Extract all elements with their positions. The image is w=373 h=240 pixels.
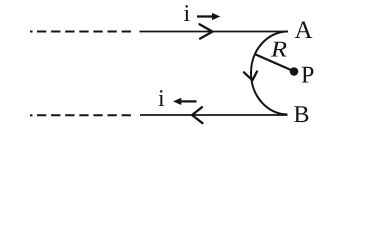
svg-text:B: B [294, 102, 310, 128]
svg-text:i: i [184, 1, 191, 27]
svg-text:A: A [295, 17, 313, 44]
svg-text:i: i [158, 86, 165, 112]
svg-text:P: P [301, 63, 314, 89]
svg-text:R: R [270, 37, 287, 62]
